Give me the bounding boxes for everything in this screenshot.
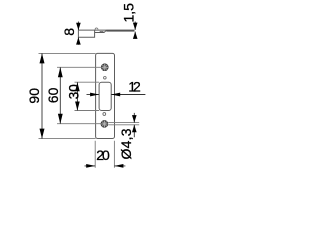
dim 4,3 line: [133, 113, 135, 137]
dim 60 arrow top: [58, 67, 63, 77]
svg-text:20: 20: [96, 147, 110, 163]
latch opening: [99, 82, 111, 110]
front view plate: [96, 53, 115, 138]
side view lip bump: [100, 32, 104, 33]
dim 20 arrow left: [86, 164, 95, 168]
dim 1,5 line: [134, 22, 136, 39]
svg-text:60: 60: [45, 87, 61, 103]
dim 8 line: [77, 22, 79, 45]
dim 8 arrow bottom: [76, 37, 81, 44]
side view plate section: [106, 30, 134, 32]
svg-text:8: 8: [61, 28, 77, 36]
side view latch lip line: [95, 30, 107, 32]
dim 20 line: [85, 165, 126, 167]
small hole bottom: [103, 113, 106, 116]
svg-text:90: 90: [26, 88, 42, 104]
dim 90 line: [41, 53, 43, 138]
svg-text:12: 12: [128, 79, 141, 95]
dim 90 arrow bottom: [40, 129, 45, 139]
dim 8 arrow top: [76, 23, 81, 30]
dim 4,3 ext lines: [108, 123, 139, 125]
dim 4,3 arrow top: [132, 115, 137, 123]
dim 12 line right: [111, 94, 145, 96]
svg-text:1,5: 1,5: [120, 3, 136, 23]
dim 20 ext lines: [95, 141, 114, 168]
small hole top: [104, 77, 107, 80]
dim 60 arrow bottom: [58, 114, 63, 124]
dim 30 ext lines: [75, 82, 100, 110]
svg-text:30: 30: [66, 84, 81, 99]
dim 30 arrow top: [75, 82, 80, 91]
dim 4,3 arrow bottom: [132, 125, 137, 133]
screw hole top: [101, 64, 108, 71]
svg-text:Ø4,3: Ø4,3: [118, 128, 134, 159]
dim 12 arrow right: [111, 93, 120, 97]
dim 90 ext lines: [39, 53, 96, 138]
dim 30 arrow bottom: [75, 102, 80, 111]
side view top line: [78, 29, 134, 31]
side view lip box: [78, 30, 94, 37]
dim 1,5 arrow bottom: [133, 32, 138, 39]
dim 90 arrow top: [40, 53, 45, 63]
side view hook tab: [95, 28, 98, 30]
dim 1,5 arrow top: [133, 23, 138, 30]
dim 20 arrow right: [114, 164, 123, 168]
dim 12 arrow left: [90, 93, 99, 97]
dim 12 line left: [87, 94, 100, 96]
dim 60 line: [59, 67, 61, 123]
screw hole bottom: [101, 120, 108, 127]
dim 60 ext lines: [57, 67, 101, 123]
dim 30 line: [76, 82, 78, 110]
